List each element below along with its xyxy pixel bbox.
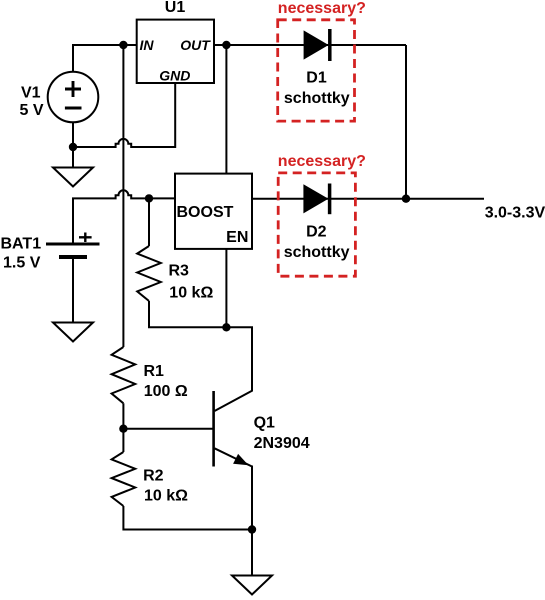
junction: base node xyxy=(119,425,127,433)
svg-text:schottky: schottky xyxy=(284,244,350,261)
regulator U1 box xyxy=(137,20,214,83)
boost converter BOOST box xyxy=(175,174,252,249)
annotation box around D1 (red dashed) xyxy=(278,20,355,121)
svg-text:D1: D1 xyxy=(306,69,327,86)
wire: OUT node down to BOOST top pin xyxy=(225,45,227,174)
wire: U1 GND to V1 ground rail (hop over vertical) xyxy=(73,83,175,147)
svg-text:10 kΩ: 10 kΩ xyxy=(144,488,188,505)
wire: R3 bottom lead to EN row xyxy=(149,301,226,327)
wire: battery - down to ground xyxy=(72,257,74,323)
wire: BOOST output row to net label xyxy=(252,198,484,200)
wire: Q1 emitter down to ground xyxy=(251,466,253,576)
wire: base node to Q1 base xyxy=(123,428,212,430)
svg-text:R3: R3 xyxy=(169,263,190,280)
voltage source V1 xyxy=(48,72,99,123)
svg-text:BAT1: BAT1 xyxy=(1,236,42,253)
svg-text:U1: U1 xyxy=(165,0,186,16)
junction: emitter node xyxy=(248,525,256,533)
wire: battery + up and right to BOOST IN (hop over vertical) xyxy=(73,190,175,244)
svg-text:IN: IN xyxy=(140,37,155,53)
wire: base node down to R2 xyxy=(122,429,124,452)
wire: R2 bottom to emitter rail xyxy=(123,506,252,530)
svg-text:OUT: OUT xyxy=(180,37,211,53)
annotation box around D2 (red dashed) xyxy=(278,173,355,276)
svg-text:schottky: schottky xyxy=(284,90,350,107)
svg-text:2N3904: 2N3904 xyxy=(254,435,310,452)
svg-text:GND: GND xyxy=(159,68,190,84)
diode D1 xyxy=(304,29,330,61)
svg-text:100 Ω: 100 Ω xyxy=(144,383,188,400)
svg-text:3.0-3.3V: 3.0-3.3V xyxy=(485,204,545,221)
junction: OUT node xyxy=(222,41,230,49)
resistor R1 xyxy=(112,347,136,403)
wire: IN node long vertical down to R1 xyxy=(122,45,124,347)
wire: R1 bottom lead to base node xyxy=(122,403,124,428)
svg-text:necessary?: necessary? xyxy=(278,0,366,17)
resistor R2 xyxy=(112,452,136,506)
ground (BAT1) xyxy=(53,323,93,342)
junction: EN node xyxy=(222,323,230,331)
ground (V1) xyxy=(53,168,93,187)
svg-text:10 kΩ: 10 kΩ xyxy=(169,285,213,302)
junction: IN node xyxy=(119,41,127,49)
svg-text:R2: R2 xyxy=(143,468,164,485)
svg-text:D2: D2 xyxy=(306,223,327,240)
svg-text:1.5 V: 1.5 V xyxy=(3,255,41,272)
svg-text:EN: EN xyxy=(226,229,248,246)
wire: V1 top to U1 IN xyxy=(73,45,137,72)
junction: output node xyxy=(402,195,410,203)
transistor Q1 xyxy=(214,391,252,467)
svg-text:necessary?: necessary? xyxy=(278,153,366,170)
wire: R3 top lead xyxy=(148,198,150,246)
svg-text:V1: V1 xyxy=(21,85,41,102)
svg-text:R1: R1 xyxy=(144,363,165,380)
diode D2 xyxy=(303,184,329,215)
svg-text:5 V: 5 V xyxy=(20,102,44,119)
svg-text:Q1: Q1 xyxy=(254,414,275,431)
wire: EN node right and down to Q1 collector xyxy=(226,327,252,391)
svg-text:BOOST: BOOST xyxy=(177,204,234,221)
wire: U1 OUT row to right corner xyxy=(214,44,406,46)
ground (Q1 emitter) xyxy=(232,576,272,595)
wire: V1 bottom to ground node xyxy=(72,122,74,168)
junction: V1 ground node xyxy=(69,143,77,151)
wire: EN pin down to EN node xyxy=(225,249,227,327)
resistor R3 xyxy=(137,246,161,301)
battery BAT1 xyxy=(46,233,100,258)
junction: R3 top node xyxy=(145,194,153,202)
wire: right vertical to output node xyxy=(405,45,407,199)
